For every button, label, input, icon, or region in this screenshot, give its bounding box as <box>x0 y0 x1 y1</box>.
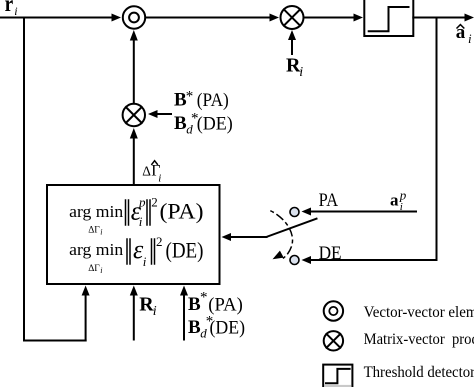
switch dashed travel arc <box>271 211 293 258</box>
svg-text:(PA): (PA) <box>160 199 204 224</box>
svg-text:Threshold detector: Threshold detector <box>364 362 474 381</box>
svg-text:B: B <box>188 317 201 338</box>
wire estimator box to middle multiplier <box>133 139 135 185</box>
svg-text:i: i <box>299 65 303 80</box>
svg-text:PA: PA <box>319 191 339 211</box>
svg-text:(DE): (DE) <box>210 318 246 339</box>
svg-text:Vector-vector element-wise pro: Vector-vector element-wise product <box>364 302 474 321</box>
svg-text:2: 2 <box>151 195 158 210</box>
svg-text:*: * <box>186 89 194 105</box>
svg-text:i: i <box>153 304 157 319</box>
wire DE feedback horizontal <box>311 259 437 261</box>
op matrix-vector multiplier middle (circle-X) <box>123 104 145 126</box>
estimator box U2 <box>47 185 220 284</box>
switch contact DE <box>290 256 299 265</box>
legend vector-vector symbol <box>324 301 343 320</box>
op vector-vector multiplier (circle-dot) <box>123 6 145 28</box>
threshold detector U1 <box>364 0 413 36</box>
svg-text:ΔΓ: ΔΓ <box>88 264 100 274</box>
svg-text:i: i <box>100 227 102 236</box>
wire output feedback vertical <box>436 18 438 261</box>
wire B input bottom <box>183 296 185 340</box>
wire feedback riser into estimator box <box>85 296 87 341</box>
wire R_i input bottom <box>133 296 135 340</box>
svg-text:a: a <box>390 191 399 210</box>
wire B label arrow into middle multiplier <box>158 113 171 115</box>
svg-text:i: i <box>100 266 102 275</box>
svg-text:r: r <box>5 0 14 16</box>
svg-text:i: i <box>400 201 403 213</box>
svg-text:arg min: arg min <box>69 202 124 221</box>
svg-text:(PA): (PA) <box>197 90 229 111</box>
svg-text:(DE): (DE) <box>197 114 233 135</box>
wire left feedback vertical <box>23 18 25 341</box>
svg-text:i: i <box>468 31 472 46</box>
wire output line <box>413 17 464 19</box>
wire PA pilot input <box>311 211 416 213</box>
wire feedback bottom horizontal <box>24 340 86 342</box>
svg-text:2: 2 <box>156 234 163 249</box>
svg-text:i: i <box>158 173 161 185</box>
svg-text:arg min: arg min <box>69 240 124 259</box>
svg-text:ΔΓ: ΔΓ <box>88 225 100 235</box>
svg-text:DE: DE <box>319 244 342 264</box>
switch contact PA <box>290 208 299 217</box>
wire R_i into top multiplier <box>291 40 293 54</box>
wire main input line <box>0 17 111 19</box>
svg-text:i: i <box>14 4 17 18</box>
wire switch common to estimator box <box>231 236 267 238</box>
wire circle-dot to circle-X top <box>146 17 269 19</box>
svg-text:*: * <box>200 290 208 306</box>
svg-text:i: i <box>143 254 147 269</box>
svg-text:(DE): (DE) <box>166 238 204 263</box>
svg-text:Matrix-vector product: Matrix-vector product <box>364 329 474 348</box>
switch lever <box>267 219 317 237</box>
legend threshold symbol <box>323 365 352 387</box>
svg-text:(PA): (PA) <box>208 294 243 315</box>
legend matrix-vector symbol <box>324 331 343 350</box>
svg-text:Δ: Δ <box>142 164 151 179</box>
svg-text:i: i <box>139 214 143 229</box>
svg-text:B: B <box>174 113 187 134</box>
wire multiplier to threshold detector <box>304 17 353 19</box>
op matrix-vector multiplier top (circle-X) <box>281 6 304 29</box>
svg-text:p: p <box>138 195 146 210</box>
wire middle multiplier to circle-dot <box>133 41 135 103</box>
